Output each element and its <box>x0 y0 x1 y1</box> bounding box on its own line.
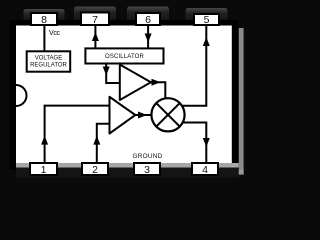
wire mixer to pin5 (arrow up) <box>182 25 206 106</box>
pin stub 5 (top bevel) <box>186 8 228 26</box>
pin stub 7 (top bevel) <box>74 7 116 26</box>
pin 8 box <box>31 13 57 25</box>
wire pin6 to oscillator (arrow down) <box>147 25 149 48</box>
IC package body <box>10 20 239 170</box>
wire pin8 to regulator <box>43 23 45 51</box>
op-amp U1 (oscillator buffer) <box>120 65 151 101</box>
pin 5 box <box>194 14 219 25</box>
svg-text:6: 6 <box>145 14 151 26</box>
voltage regulator box <box>27 51 70 71</box>
svg-text:3: 3 <box>144 164 150 176</box>
wire mixer to pin4 (arrow down) <box>183 123 206 164</box>
wire oscillator to amp1 (arrow down) <box>106 64 120 84</box>
orientation notch <box>16 85 27 106</box>
svg-text:REGULATOR: REGULATOR <box>30 63 67 69</box>
wire pin2 to amp2 (arrow up) <box>97 124 110 163</box>
svg-text:OSCILLATOR: OSCILLATOR <box>105 54 144 60</box>
svg-text:1: 1 <box>41 164 47 176</box>
svg-text:Vcc: Vcc <box>49 30 60 37</box>
pin stub 6 (top bevel) <box>127 7 169 26</box>
op-amp U2 (RF amplifier) <box>110 97 136 134</box>
pin 1 box <box>30 163 57 175</box>
pin 4 box <box>192 163 218 175</box>
oscillator box <box>85 48 163 63</box>
pin 7 box <box>81 13 109 26</box>
pin 6 box <box>136 13 160 25</box>
svg-text:2: 2 <box>92 164 98 176</box>
svg-text:8: 8 <box>41 14 47 26</box>
svg-text:5: 5 <box>204 14 210 26</box>
right side shadow <box>239 28 244 175</box>
svg-text:VOLTAGE: VOLTAGE <box>35 56 62 62</box>
svg-text:GROUND: GROUND <box>132 153 162 160</box>
wire pin1 to amp2 (arrow up) <box>45 106 110 163</box>
svg-text:7: 7 <box>92 14 98 26</box>
bottom pin bevel strip (bright) <box>16 163 239 168</box>
bottom pin stub dark strip <box>16 168 239 178</box>
pin 3 box <box>134 163 160 175</box>
svg-text:4: 4 <box>202 164 208 176</box>
pin stub 8 (top bevel) <box>24 9 65 26</box>
wire amp1 to mixer top (arrow right) <box>151 82 165 98</box>
wire pin7 from oscillator (arrow up) <box>94 25 96 48</box>
mixer circle <box>151 98 184 131</box>
wire amp2 to mixer (arrow right) <box>135 114 151 116</box>
pin 2 box <box>82 163 108 175</box>
bottom shadow <box>20 170 244 175</box>
